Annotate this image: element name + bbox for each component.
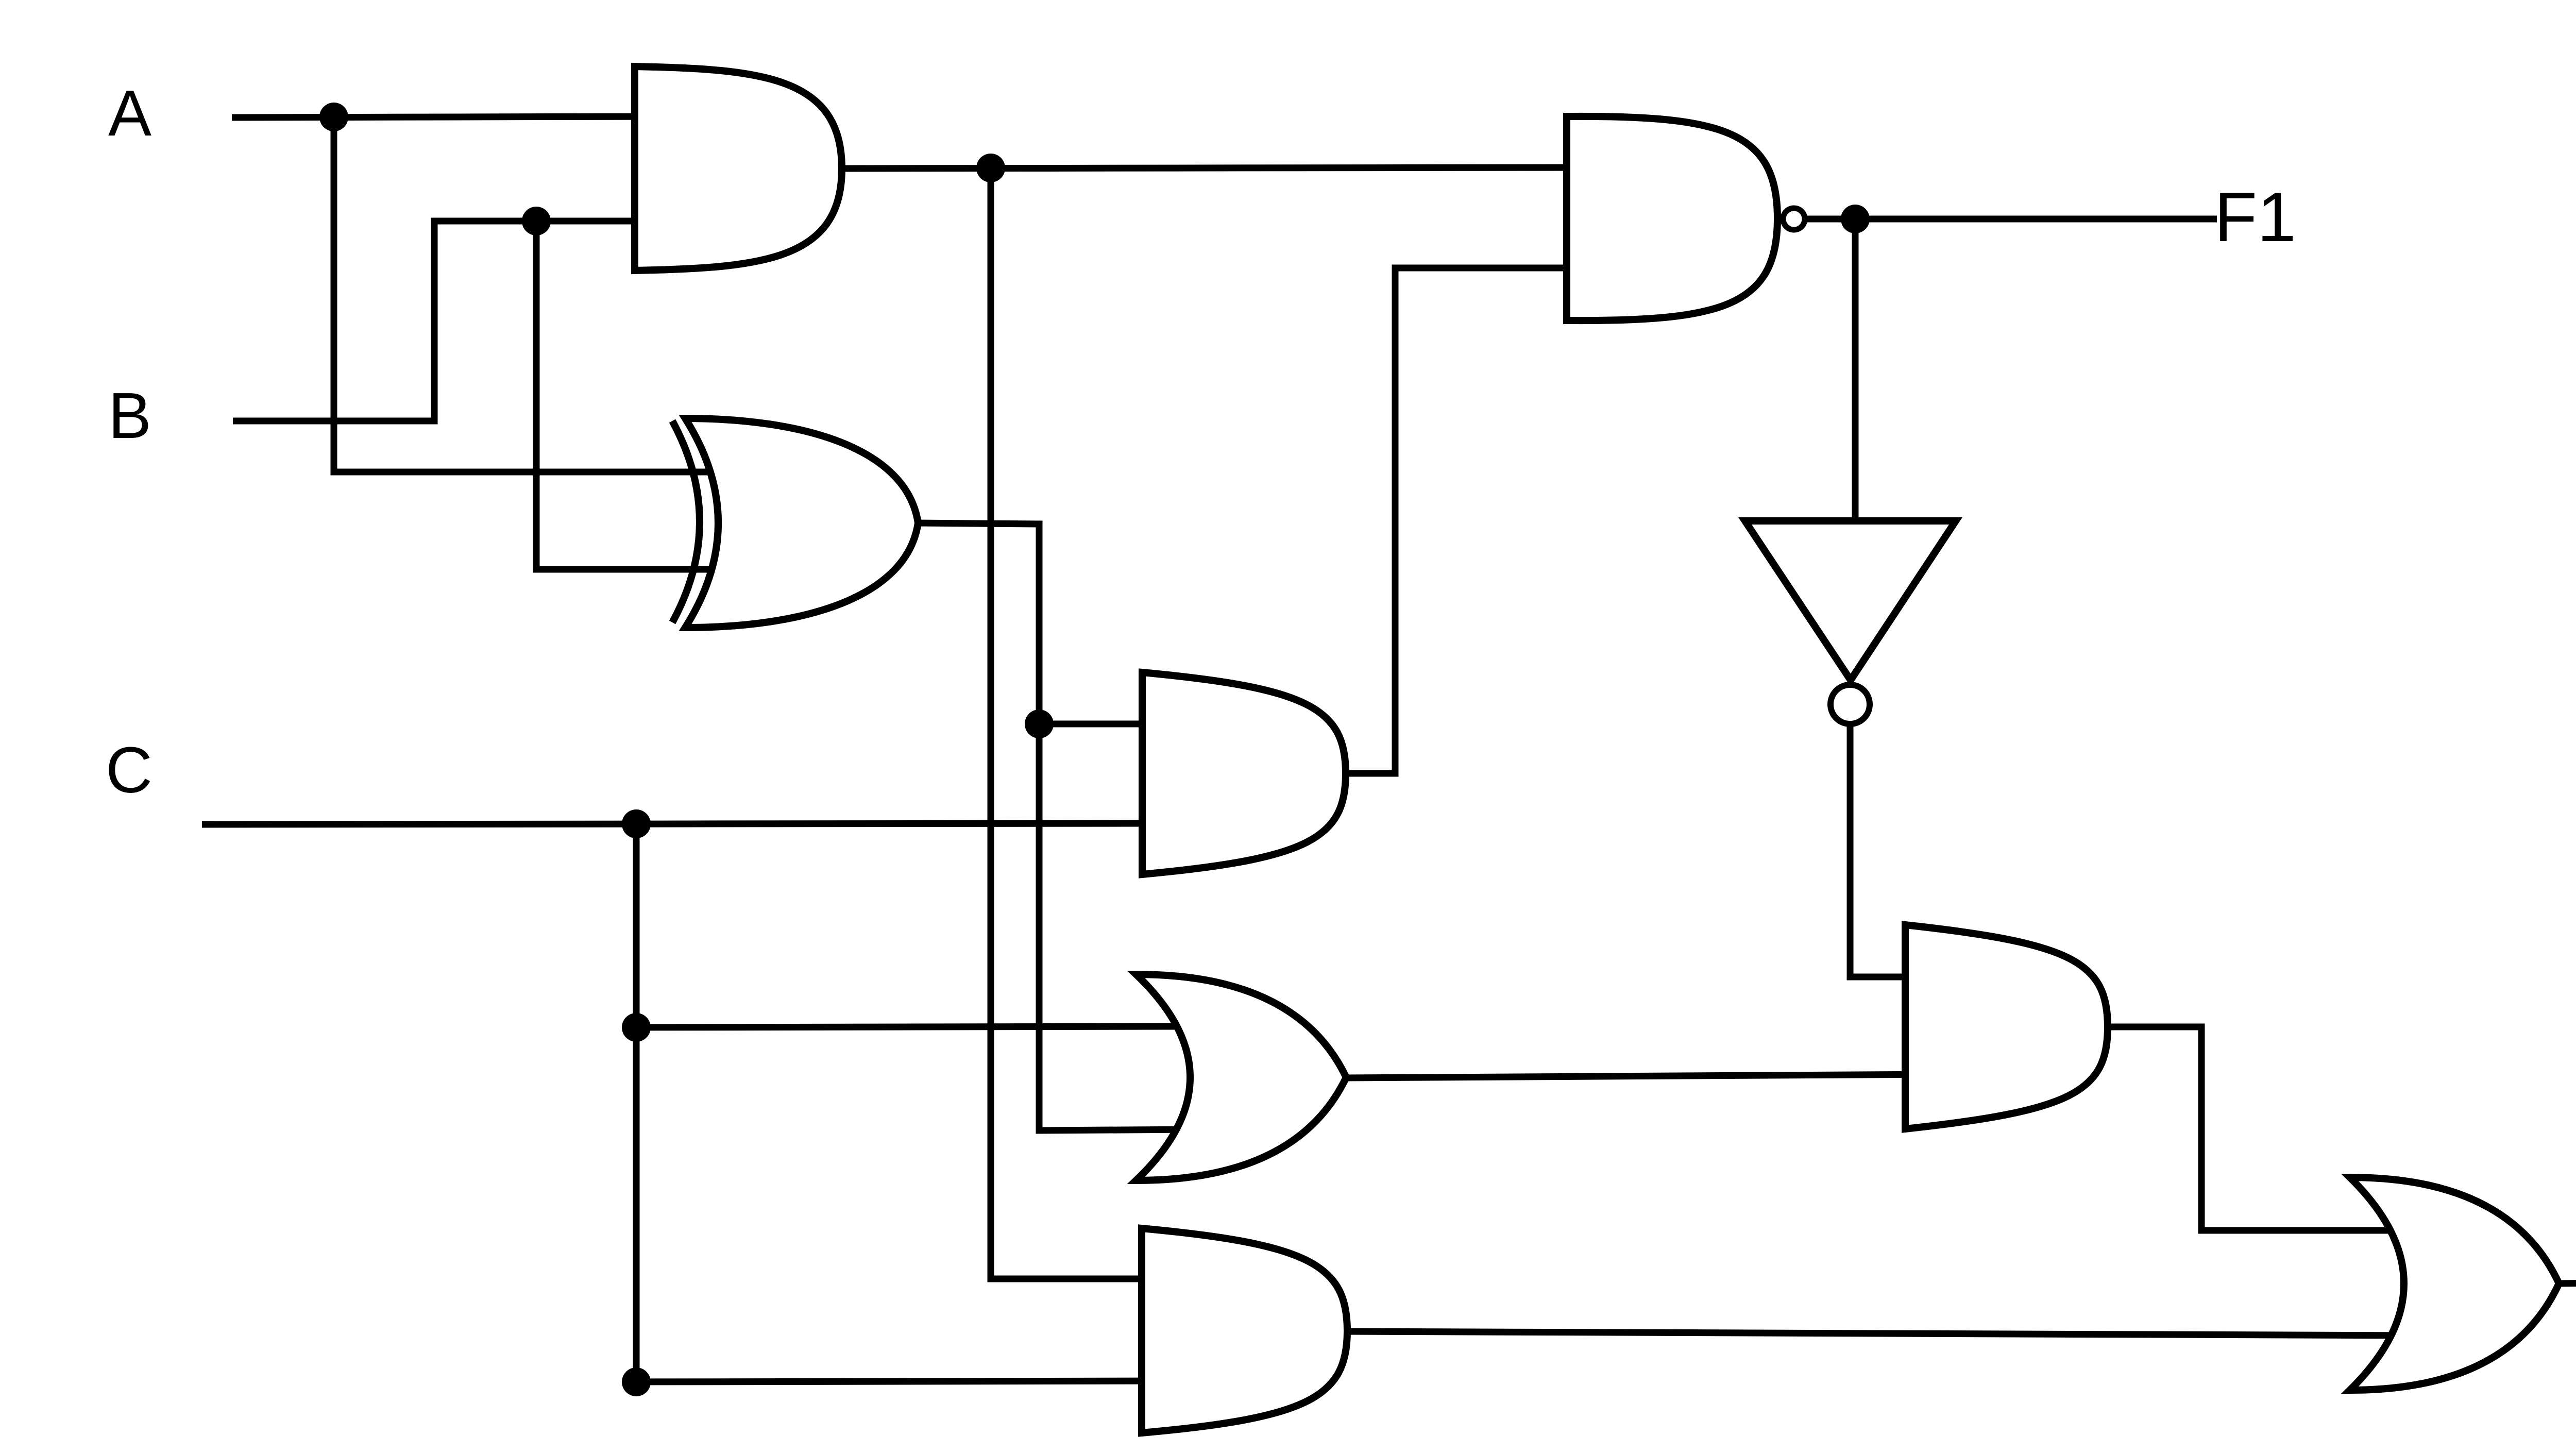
AND gate 4 (bottom) (1142, 1228, 1347, 1433)
wire NAND output F1 (1806, 216, 2217, 223)
AND gate 3 (right) (1905, 925, 2108, 1129)
svg-text:B: B (108, 379, 151, 452)
OR gate 1 (1136, 974, 1346, 1180)
wire B input to AND1 lower input (233, 221, 670, 421)
inverter output bubble (1831, 685, 1870, 724)
AND gate 1 (inputs A,B) (635, 66, 842, 271)
wire AND3 output (2105, 1027, 2421, 1230)
svg-text:C: C (106, 734, 152, 806)
wire branch to XOR lower input (536, 221, 737, 569)
NAND gate body (1567, 116, 1777, 320)
XOR gate body (685, 418, 918, 628)
wire A input (232, 116, 670, 117)
svg-text:A: A (108, 77, 151, 149)
wire AND1 output to NAND (840, 167, 1597, 168)
junction dot A (319, 103, 348, 131)
svg-text:F1: F1 (2214, 178, 2296, 256)
wire A branch vertical to XOR upper input (334, 117, 737, 472)
wire inverter input (1852, 219, 1859, 521)
junction dot AND1 output (976, 154, 1005, 182)
junction dot XOR output (1025, 709, 1054, 738)
junction dot B line (522, 207, 551, 235)
wire OR2 output F2 (2556, 1282, 2576, 1283)
wire AND2 upper input (1039, 721, 1175, 728)
junction dot C3 (622, 1367, 651, 1396)
wire AND2 output to NAND lower (1343, 268, 1597, 773)
wire C branch vertical to AND4 lower input (636, 824, 1175, 1382)
wire XOR output down to OR1 lower input (914, 523, 1195, 1130)
wire AND1 output branch down to AND4 upper input (991, 168, 1175, 1279)
wire OR1 output to AND3 (1344, 1074, 1937, 1078)
junction dot C2 (622, 1013, 651, 1042)
OR gate 2 (output F2) (2350, 1177, 2559, 1390)
inverter triangle (1745, 521, 1956, 680)
NAND output bubble (1783, 208, 1805, 230)
wire AND4 output to OR2 (1345, 1331, 2421, 1336)
XOR extra input arc (672, 421, 700, 622)
junction dot C1 (622, 809, 651, 838)
AND gate 2 (middle) (1142, 672, 1346, 874)
wire inverter output (1850, 724, 1937, 977)
junction dot F1 (1841, 205, 1870, 233)
wire C input (202, 823, 1175, 824)
wire OR1 upper input (636, 1026, 1195, 1027)
